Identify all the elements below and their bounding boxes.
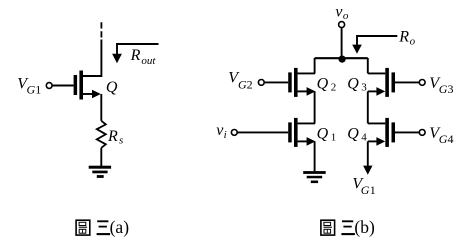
svg-text:(b): (b) bbox=[354, 217, 375, 237]
wire resistor to ground bbox=[100, 148, 102, 166]
svg-text:Q: Q bbox=[106, 79, 118, 96]
wire gate VG4 bbox=[395, 131, 419, 133]
caption 圖三(b) bbox=[321, 220, 355, 235]
wire Rout arrow bbox=[117, 44, 159, 45]
transistor Q bbox=[74, 71, 101, 100]
wire gate vi bbox=[238, 131, 289, 133]
wire Q2 source to Q1 drain bbox=[314, 91, 316, 123]
svg-text:G: G bbox=[27, 82, 36, 96]
svg-text:4: 4 bbox=[361, 132, 367, 144]
ground bbox=[89, 166, 111, 169]
wire drain vertical bbox=[83, 40, 101, 77]
transistor Q3 bbox=[368, 68, 395, 97]
terminal VG2 bbox=[258, 80, 264, 86]
svg-text:R: R bbox=[107, 128, 118, 145]
svg-text:Q: Q bbox=[317, 126, 329, 143]
node dot bbox=[339, 56, 346, 63]
terminal VG1 bbox=[46, 83, 52, 89]
svg-text:Q: Q bbox=[347, 126, 359, 143]
svg-text:Q: Q bbox=[347, 76, 359, 93]
terminal VG4 bbox=[419, 130, 425, 136]
terminal vo bbox=[339, 22, 345, 28]
transistor Q2 bbox=[288, 68, 315, 97]
svg-text:G: G bbox=[439, 82, 448, 96]
wire gate VG1 bbox=[52, 85, 73, 87]
wire gate VG3 bbox=[395, 81, 419, 83]
svg-text:o: o bbox=[343, 10, 349, 22]
wire vo to node bbox=[341, 28, 343, 58]
terminal VG3 bbox=[419, 80, 425, 86]
svg-text:3: 3 bbox=[448, 82, 454, 96]
wire drain dashed stub bbox=[100, 22, 102, 39]
wire Q3 source to Q4 drain bbox=[367, 91, 369, 123]
svg-text:G: G bbox=[361, 183, 370, 197]
wire top rail bbox=[315, 57, 368, 59]
wire Q4 source down arrow to VG1 bbox=[367, 141, 369, 166]
svg-text:1: 1 bbox=[331, 132, 337, 144]
wire Q3 drain up bbox=[367, 58, 369, 73]
resistor Rs bbox=[97, 121, 106, 148]
svg-text:R: R bbox=[398, 29, 409, 46]
svg-text:1: 1 bbox=[370, 183, 376, 197]
svg-text:3: 3 bbox=[361, 82, 367, 94]
terminal vi bbox=[231, 130, 237, 136]
svg-text:2: 2 bbox=[247, 77, 253, 91]
svg-text:out: out bbox=[141, 55, 156, 67]
wire source to resistor bbox=[100, 94, 102, 121]
transistor Q4 bbox=[368, 118, 395, 147]
caption 圖三(a) bbox=[76, 220, 110, 235]
wire Q1 source to ground bbox=[314, 141, 316, 171]
wire gate VG2 bbox=[265, 81, 289, 83]
svg-text:(a): (a) bbox=[110, 217, 130, 237]
ground (b) bbox=[303, 171, 326, 174]
transistor Q1 bbox=[288, 118, 315, 147]
wire Ro arrow bbox=[357, 36, 397, 45]
svg-text:o: o bbox=[410, 36, 416, 48]
svg-text:i: i bbox=[224, 129, 227, 141]
wire Q2 drain up bbox=[314, 58, 316, 73]
svg-text:G: G bbox=[439, 132, 448, 146]
svg-text:R: R bbox=[130, 47, 141, 64]
svg-text:1: 1 bbox=[35, 82, 41, 96]
svg-text:2: 2 bbox=[331, 82, 337, 94]
svg-text:4: 4 bbox=[448, 132, 454, 146]
svg-text:Q: Q bbox=[317, 76, 329, 93]
svg-text:s: s bbox=[119, 135, 123, 147]
